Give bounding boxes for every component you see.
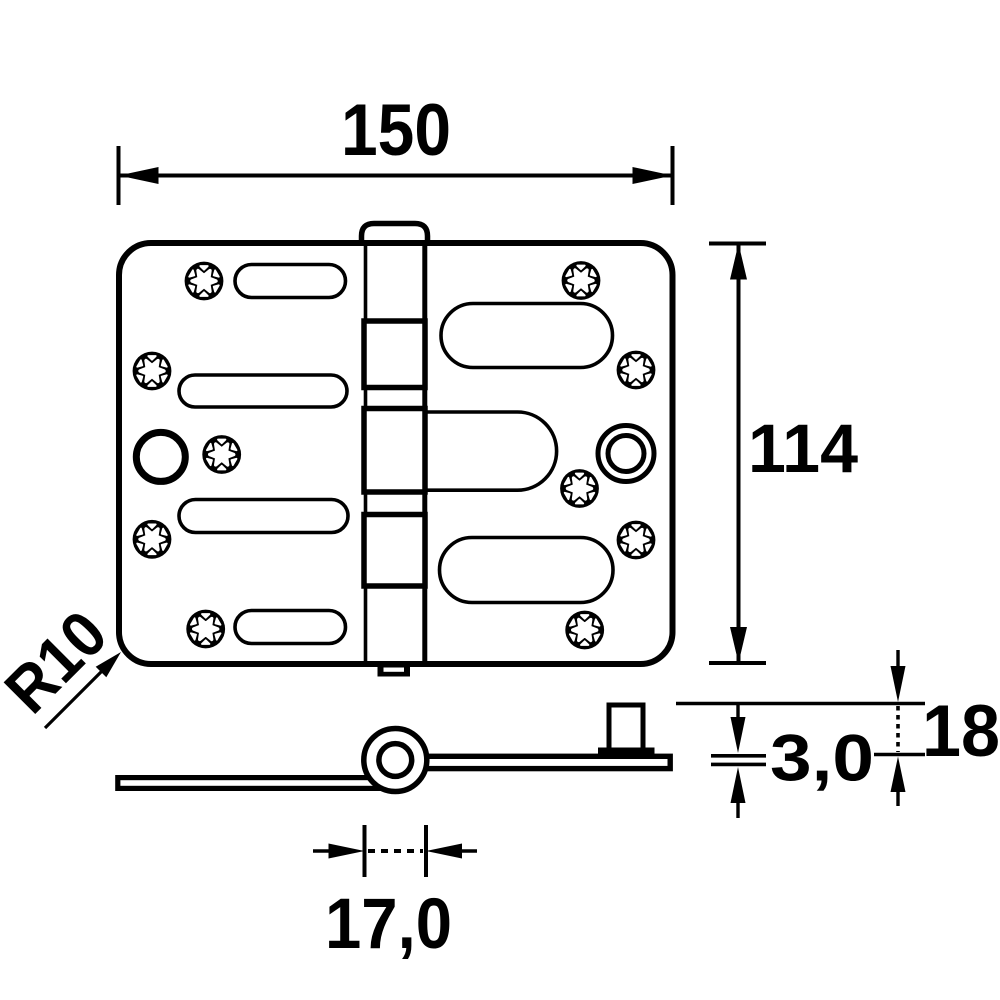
dim17.0 right tick <box>424 825 428 877</box>
barrel knuckle W1 <box>364 321 425 388</box>
dim3.0 upper arrow shaft <box>736 704 739 721</box>
svg-text:17,0: 17,0 <box>325 885 452 964</box>
dim3.0 bottom tick <box>711 763 766 767</box>
side view right leaf <box>420 756 670 768</box>
torx screw row4-right <box>617 521 656 560</box>
slot R2 middle from barrel <box>428 412 557 490</box>
dim114 line <box>737 244 741 664</box>
dim150 line <box>119 174 673 178</box>
side view knuckle inner <box>379 744 412 777</box>
barrel left edge <box>364 245 368 662</box>
dim17.0 dashed line <box>368 849 423 853</box>
R10 arrow line <box>45 668 105 728</box>
dim17.0 right arrow shaft <box>458 849 477 853</box>
torx screw row4-left <box>133 520 172 559</box>
barrel bottom tab <box>378 664 411 677</box>
dim18 lower arrow shaft <box>896 788 899 806</box>
torx screw bottom-right <box>565 611 604 650</box>
dim17.0 left arrowhead <box>329 844 365 859</box>
dim150 right tick <box>671 146 675 205</box>
barrel knuckle W2 <box>364 409 425 493</box>
torx screw middle-right <box>560 469 599 508</box>
dim17.0 left arrow shaft <box>313 849 333 853</box>
dim18 upper arrow shaft <box>896 650 899 670</box>
torx screw middle-left <box>202 435 241 474</box>
bushing hole right inner <box>608 436 644 472</box>
dim18 bottom tick <box>874 753 925 756</box>
side view knuckle outer <box>364 729 427 792</box>
svg-text:114: 114 <box>748 410 858 487</box>
slot L4 bottom-left <box>235 611 346 644</box>
barrel cap <box>362 224 428 247</box>
slot L3 <box>179 500 348 533</box>
bushing hole right outer <box>598 426 654 482</box>
side view left leaf <box>118 778 393 789</box>
dim150 right arrowhead <box>633 167 673 184</box>
dim3.0 lower arrow shaft <box>736 799 739 818</box>
dim114 bottom arrowhead <box>730 627 747 663</box>
dim3.0 upper arrowhead <box>731 717 746 753</box>
torx screw row2-left <box>133 352 172 391</box>
dim114 top tick <box>709 242 766 246</box>
dim18 upper arrowhead <box>891 666 906 702</box>
slot R1 top-right <box>441 304 613 368</box>
torx screw bottom-left <box>186 610 225 649</box>
barrel knuckle W3 <box>364 515 425 587</box>
slot L1 top-left <box>235 265 346 298</box>
barrel right edge <box>422 245 427 662</box>
torx screw top-right <box>562 261 601 300</box>
dim150 left arrowhead <box>119 167 159 184</box>
dim18 top line <box>676 702 925 705</box>
R10 arrowhead <box>96 652 121 677</box>
side view pin block <box>609 705 643 751</box>
plain hole left <box>136 432 185 481</box>
hinge plate outline <box>119 243 673 664</box>
svg-text:3,0: 3,0 <box>770 721 874 795</box>
side view pin flange <box>598 748 655 756</box>
slot L2 <box>179 375 347 407</box>
dim18 dashed line <box>896 706 900 752</box>
dim3.0 top tick <box>711 754 766 758</box>
dim18 lower arrowhead <box>891 757 906 793</box>
slot R3 bottom-right <box>440 538 614 603</box>
svg-text:18: 18 <box>922 691 1000 772</box>
svg-text:150: 150 <box>341 90 451 171</box>
torx screw row2-right <box>617 351 656 390</box>
dim17.0 left tick <box>363 825 367 877</box>
dim17.0 right arrowhead <box>426 844 462 859</box>
dim114 bottom tick <box>709 661 766 665</box>
dim150 left tick <box>117 146 121 205</box>
torx screw top-left <box>185 262 224 301</box>
dim114 top arrowhead <box>730 244 747 280</box>
dim3.0 lower arrowhead <box>731 767 746 803</box>
